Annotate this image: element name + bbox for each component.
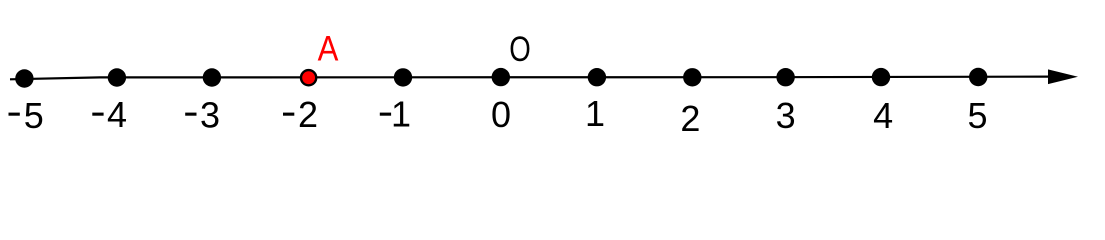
dot 4 bbox=[872, 68, 890, 86]
svg-text:3: 3 bbox=[200, 95, 220, 136]
dot 0 bbox=[492, 68, 510, 86]
label O bbox=[509, 28, 531, 68]
label A bbox=[318, 30, 340, 69]
number line axis bbox=[10, 77, 1052, 80]
dot 2 bbox=[683, 68, 701, 86]
svg-text:5: 5 bbox=[24, 95, 44, 136]
dot 1 bbox=[588, 68, 606, 86]
dot 5 bbox=[969, 68, 987, 86]
svg-text:4: 4 bbox=[107, 94, 127, 135]
red point A at -2 bbox=[301, 70, 316, 85]
dot 3 bbox=[776, 68, 794, 86]
dot -3 bbox=[203, 68, 221, 86]
dot -1 bbox=[394, 68, 412, 86]
svg-text:5: 5 bbox=[967, 95, 987, 136]
arrowhead bbox=[1048, 69, 1078, 84]
svg-text:4: 4 bbox=[873, 95, 893, 136]
minus of -1 bbox=[380, 113, 391, 116]
svg-text:2: 2 bbox=[298, 94, 318, 135]
svg-text:2: 2 bbox=[680, 98, 700, 139]
minus of -3 bbox=[185, 113, 196, 116]
dot -5 bbox=[15, 69, 33, 87]
minus of -5 bbox=[9, 113, 20, 116]
dot -4 bbox=[108, 68, 126, 86]
svg-text:0: 0 bbox=[491, 94, 511, 135]
svg-text:O: O bbox=[509, 28, 531, 68]
svg-text:3: 3 bbox=[776, 95, 796, 136]
svg-text:1: 1 bbox=[585, 93, 605, 134]
minus of -2 bbox=[283, 113, 294, 116]
svg-text:1: 1 bbox=[391, 93, 411, 134]
svg-text:A: A bbox=[318, 30, 340, 69]
minus of -4 bbox=[92, 113, 103, 116]
